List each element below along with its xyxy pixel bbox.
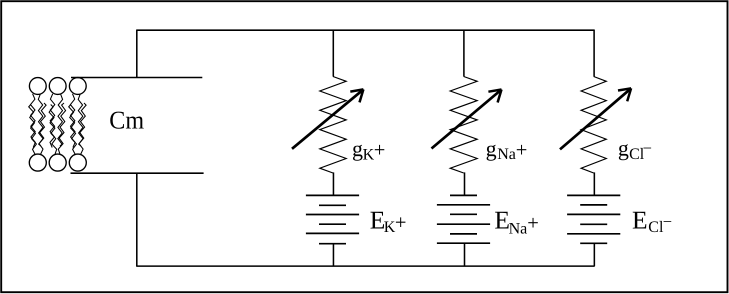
wire: top rail bbox=[136, 29, 595, 31]
svg-text:Cm: Cm bbox=[109, 105, 144, 134]
membrane lipid head (top row 1) bbox=[29, 78, 46, 95]
wire: gNa branch top lead bbox=[463, 30, 465, 76]
battery ENa bbox=[437, 195, 490, 243]
svg-text:+: + bbox=[395, 212, 407, 234]
membrane lipid head (top row 3) bbox=[69, 78, 86, 95]
svg-text:+: + bbox=[527, 212, 539, 234]
svg-text:g: g bbox=[618, 136, 629, 161]
battery ECl bbox=[567, 195, 620, 243]
svg-text:+: + bbox=[374, 139, 386, 161]
wire: gK to battery EK bbox=[332, 172, 334, 195]
svg-text:g: g bbox=[352, 136, 363, 161]
svg-text:+: + bbox=[516, 139, 528, 161]
membrane lipid head (bottom row 2) bbox=[49, 154, 66, 171]
svg-text:K: K bbox=[384, 219, 396, 236]
svg-text:g: g bbox=[486, 136, 497, 161]
arrow: variable-resistor arrow over gCl bbox=[560, 88, 631, 149]
label gNa bbox=[486, 136, 528, 163]
membrane lipid tails (bottom row 2) bbox=[49, 103, 66, 155]
label gK bbox=[352, 136, 385, 164]
membrane lipid tails (top row 3) bbox=[70, 94, 83, 148]
membrane lipid head (bottom row 1) bbox=[29, 154, 46, 171]
wire: capacitor Cm top lead bbox=[136, 30, 138, 77]
wire: EK to bottom rail bbox=[332, 244, 334, 266]
wire: bottom rail bbox=[136, 265, 595, 267]
variable resistor (conductance) gCl bbox=[581, 77, 606, 174]
battery EK bbox=[306, 195, 359, 243]
arrow: variable-resistor arrow over gNa bbox=[432, 90, 502, 149]
capacitor Cm top plate bbox=[71, 77, 202, 79]
variable resistor (conductance) gK bbox=[320, 77, 346, 174]
arrow: variable-resistor arrow over gK bbox=[292, 89, 363, 148]
wire: gCl to battery ECl bbox=[593, 172, 595, 195]
membrane lipid tails (bottom row 3) bbox=[69, 103, 86, 155]
membrane lipid tails (top row 2) bbox=[50, 94, 63, 148]
wire: gCl branch top lead bbox=[593, 30, 595, 76]
label EK bbox=[370, 206, 407, 236]
svg-text:E: E bbox=[632, 205, 648, 234]
svg-text:−: − bbox=[663, 212, 672, 231]
label gCl bbox=[618, 136, 652, 163]
wire: gNa to battery ENa bbox=[464, 172, 466, 195]
capacitor Cm bottom plate bbox=[71, 172, 204, 174]
svg-text:K: K bbox=[363, 147, 375, 164]
svg-text:Na: Na bbox=[497, 146, 516, 163]
wire: ECl to bottom rail bbox=[593, 243, 595, 266]
wire: capacitor Cm bottom lead bbox=[136, 173, 138, 266]
membrane lipid head (top row 2) bbox=[49, 78, 66, 95]
wire: ENa to bottom rail bbox=[464, 243, 466, 266]
membrane lipid head (bottom row 3) bbox=[69, 154, 86, 171]
membrane lipid tails (top row 1) bbox=[31, 94, 44, 148]
svg-text:−: − bbox=[643, 139, 652, 158]
wire: gK branch top lead bbox=[332, 30, 334, 76]
svg-text:Cl: Cl bbox=[648, 219, 664, 236]
label ENa bbox=[494, 206, 538, 238]
label ECl bbox=[632, 205, 672, 236]
variable resistor (conductance) gNa bbox=[450, 77, 477, 174]
svg-text:Na: Na bbox=[509, 221, 528, 238]
membrane lipid tails (bottom row 1) bbox=[29, 103, 46, 155]
